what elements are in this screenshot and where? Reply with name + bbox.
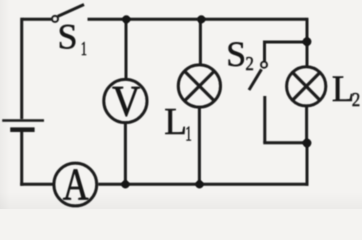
wire S2 top lead	[263, 41, 266, 62]
wire voltmeter top lead	[125, 19, 128, 79]
wire L1 top lead	[199, 19, 202, 65]
voltmeter V	[104, 79, 147, 122]
wire bottom-left horizontal	[20, 183, 54, 186]
lamp L1	[178, 65, 220, 107]
switch S1	[52, 5, 84, 22]
wire right vertical upper	[306, 18, 309, 42]
node right lower junction	[303, 139, 312, 148]
svg-text:1: 1	[185, 121, 192, 145]
wire top horizontal (S1 to top-right corner)	[88, 18, 308, 21]
svg-text:L: L	[164, 101, 187, 143]
wire top-left horizontal	[22, 18, 52, 21]
ammeter A	[54, 163, 97, 206]
wire L1 bottom lead	[198, 107, 201, 184]
svg-text:S: S	[58, 16, 78, 56]
wire L2 top lead	[306, 42, 309, 68]
node bottom junction V branch	[121, 180, 129, 188]
wire S2 bottom lead	[263, 96, 266, 143]
svg-text:2: 2	[245, 53, 254, 76]
wire left vertical (battery bottom side)	[20, 131, 23, 186]
svg-text:1: 1	[81, 37, 87, 60]
wire L2 bottom lead	[305, 106, 308, 143]
wire S2 lower horizontal	[263, 141, 307, 144]
node top junction V branch	[122, 15, 130, 23]
svg-text:A: A	[63, 160, 90, 209]
svg-text:V: V	[112, 77, 141, 125]
lamp L2	[287, 67, 326, 106]
node top junction L1 branch	[197, 15, 205, 23]
svg-text:S: S	[226, 34, 246, 74]
wire left vertical (battery top side)	[20, 18, 23, 119]
switch S2	[249, 62, 267, 90]
wire bottom horizontal (right corner to ammeter)	[98, 183, 308, 186]
wire right vertical lower	[306, 143, 309, 186]
svg-text:2: 2	[352, 89, 361, 112]
node right upper junction	[303, 37, 312, 46]
wire voltmeter bottom lead	[124, 123, 127, 185]
wire S2 feed horizontal	[265, 41, 308, 44]
node bottom junction L1 branch	[195, 180, 203, 188]
battery	[2, 121, 44, 130]
